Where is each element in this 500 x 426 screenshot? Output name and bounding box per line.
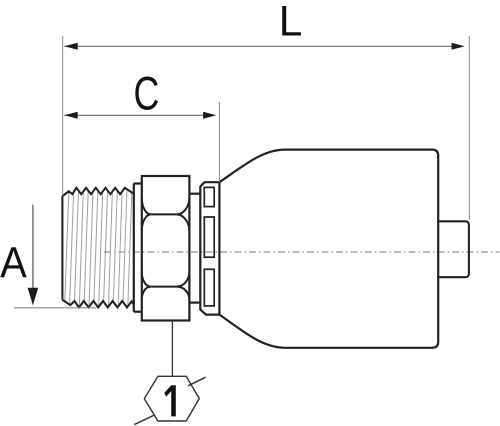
leader line to balloon — [171, 322, 173, 377]
windows — [204, 187, 214, 306]
crimp collar — [200, 182, 219, 314]
centerline — [104, 251, 500, 253]
C dimension — [64, 67, 219, 182]
shell body — [219, 150, 438, 348]
svg-text:C: C — [134, 67, 160, 120]
L dimension — [63, 0, 470, 220]
washer band between thread and hex — [134, 184, 142, 312]
svg-text:L: L — [279, 0, 303, 46]
nipple — [438, 221, 469, 277]
A dimension — [0, 205, 96, 308]
neck band between hex and collar — [189, 194, 200, 303]
balloon number — [164, 385, 176, 416]
thread hatch lines — [65, 189, 132, 307]
balloon hexagon — [144, 376, 199, 421]
thread outline — [62, 188, 133, 308]
hex nut — [142, 176, 190, 321]
svg-text:A: A — [0, 238, 27, 287]
ticks — [188, 377, 205, 386]
upper junction — [142, 198, 151, 215]
lower junction — [142, 271, 151, 286]
